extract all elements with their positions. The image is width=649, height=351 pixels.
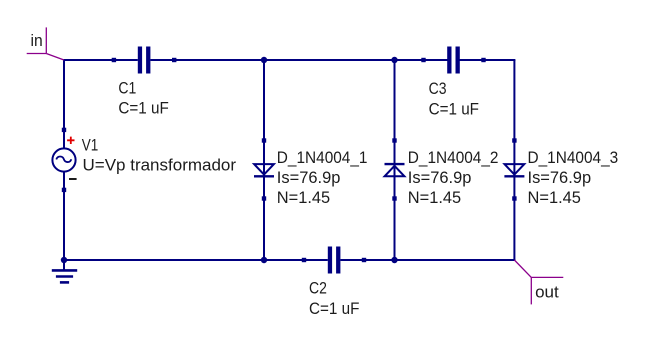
node junction dot ground [61,257,67,263]
svg-text:C=1 uF: C=1 uF [429,99,479,118]
wire bottom rail left: ground to C2 [64,259,328,261]
wire D3 column: top corner down to out corner [513,60,515,260]
wire top rail middle: C1 to C3 [150,59,449,61]
svg-text:out: out [535,282,559,301]
svg-text:C1: C1 [118,78,136,97]
wire top rail left: V1 corner to C1 [64,59,138,60]
node label out (marker) [514,260,563,304]
capacitor C3 [421,47,485,74]
wire D1 column [263,60,265,260]
svg-text:N=1.45: N=1.45 [528,188,581,207]
node junction dot bottom D1 [261,257,267,263]
wire top rail right: C3 to right corner [458,59,516,61]
diode D2 (pointing up) [385,138,405,200]
svg-text:C=1 uF: C=1 uF [118,99,168,118]
voltage source V1 [52,128,76,192]
svg-text:N=1.45: N=1.45 [408,188,461,207]
svg-text:D_1N4004_2: D_1N4004_2 [408,148,499,167]
svg-text:Is=76.9p: Is=76.9p [277,168,341,187]
ground [52,260,77,282]
svg-text:Is=76.9p: Is=76.9p [408,168,472,187]
wire bottom rail right: C2 to out corner [340,259,515,261]
svg-text:C2: C2 [309,279,327,298]
svg-text:Is=76.9p: Is=76.9p [528,168,592,187]
diode D1 (pointing down) [254,138,274,200]
svg-text:U=Vp transformador: U=Vp transformador [83,155,237,174]
svg-text:D_1N4004_3: D_1N4004_3 [528,148,619,167]
svg-text:D_1N4004_1: D_1N4004_1 [277,148,368,167]
wire left column: corner down through V1 to ground [63,59,65,149]
node label in (marker) [27,27,64,60]
wire D2 column [394,60,396,260]
node junction dot top D1 [261,57,267,63]
svg-text:in: in [31,31,43,50]
node junction dot bottom D2 [391,257,397,263]
node junction dot top D2 [391,57,397,63]
svg-text:C=1 uF: C=1 uF [309,299,359,318]
svg-text:C3: C3 [429,79,447,98]
diode D3 (pointing down) [504,138,524,200]
capacitor C2 [302,247,366,274]
svg-text:N=1.45: N=1.45 [277,188,330,207]
svg-text:V1: V1 [82,136,99,155]
capacitor C1 [112,47,177,74]
